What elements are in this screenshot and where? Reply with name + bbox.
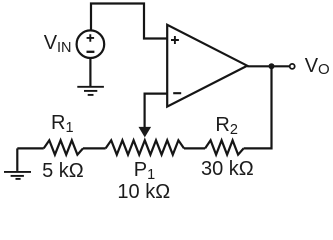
resistor R1 bbox=[44, 140, 83, 154]
label VIN bbox=[44, 33, 72, 53]
ground bottom-left bbox=[4, 148, 31, 179]
wire from op-amp minus input to potentiometer wiper bbox=[145, 94, 167, 130]
value 30 kOhm bbox=[201, 159, 254, 179]
wire from source bottom to ground bbox=[89, 58, 91, 86]
label R1 bbox=[51, 113, 74, 133]
wire top from source to op-amp plus input bbox=[91, 4, 167, 39]
value 10 kOhm bbox=[117, 182, 170, 202]
label R2 bbox=[215, 115, 238, 135]
voltage source VIN bbox=[77, 30, 105, 58]
ground below source bbox=[77, 87, 104, 95]
wire P1 to R2 bbox=[184, 147, 205, 149]
output terminal circle VO bbox=[290, 64, 295, 69]
potentiometer P1 bbox=[106, 140, 184, 154]
label VO bbox=[305, 56, 330, 76]
value 5 kOhm bbox=[42, 161, 84, 181]
junction node dot bbox=[269, 63, 275, 69]
label P1 bbox=[134, 160, 155, 180]
wire op-amp output to terminal bbox=[247, 65, 289, 67]
resistor R2 bbox=[205, 140, 244, 154]
wire R1 to P1 bbox=[83, 147, 106, 149]
wire ground to R1 bbox=[17, 147, 43, 149]
op-amp bbox=[167, 25, 247, 107]
wiper arrowhead bbox=[139, 127, 152, 137]
wire from junction down to R2 bbox=[244, 66, 272, 148]
